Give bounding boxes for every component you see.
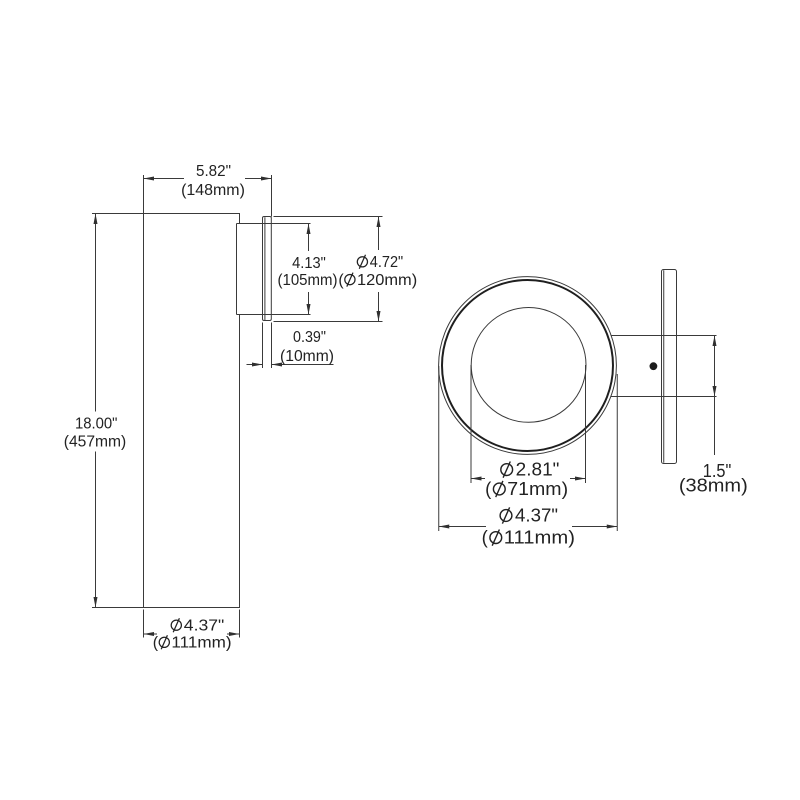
mounting arm (side view) bbox=[236, 224, 238, 315]
svg-text:18.00": 18.00" bbox=[75, 416, 118, 433]
arrow right bbox=[261, 177, 272, 181]
svg-text:(10mm): (10mm) bbox=[280, 348, 334, 365]
extension line bottom (arm bottom edge) bbox=[237, 314, 311, 316]
dimension line bbox=[144, 633, 158, 635]
svg-text:120mm): 120mm) bbox=[357, 272, 417, 289]
arrow right bbox=[607, 525, 618, 529]
arrow right bbox=[575, 477, 586, 481]
extension line left bbox=[143, 610, 145, 638]
outer rim circle (thin, diam 4.37") bbox=[439, 277, 617, 455]
svg-text:2.81": 2.81" bbox=[516, 459, 560, 480]
svg-text:(105mm): (105mm) bbox=[278, 272, 338, 289]
cylinder body (side view, 18.00" tall) bbox=[144, 214, 240, 608]
dimension line bbox=[439, 526, 486, 528]
arrow bottom bbox=[713, 386, 717, 397]
svg-text:(457mm): (457mm) bbox=[64, 434, 127, 451]
svg-text:(38mm): (38mm) bbox=[679, 475, 748, 496]
wall plate (side view, edge-on) bbox=[263, 217, 272, 321]
svg-text:(148mm): (148mm) bbox=[181, 182, 245, 199]
set screw bbox=[650, 362, 658, 370]
svg-text:4.37": 4.37" bbox=[184, 617, 225, 634]
arrow left bbox=[144, 632, 155, 636]
svg-text:0.39": 0.39" bbox=[293, 329, 326, 346]
extension line top bbox=[274, 216, 383, 218]
extension line left bbox=[143, 175, 145, 214]
extension line left bbox=[262, 323, 264, 369]
dimension line bbox=[378, 217, 380, 251]
svg-text:(: ( bbox=[482, 527, 489, 548]
dimension line bbox=[471, 478, 485, 480]
cylinder face circle (thick) bbox=[442, 280, 613, 451]
svg-text:111mm): 111mm) bbox=[171, 635, 231, 652]
arrow top bbox=[307, 224, 311, 235]
arrow left bbox=[439, 525, 450, 529]
mounting arm bottom edge (rear view) bbox=[611, 396, 717, 398]
dimension line left tail bbox=[247, 364, 263, 366]
extension line left bbox=[438, 366, 440, 531]
extension line bottom bbox=[274, 321, 383, 323]
svg-text:(: ( bbox=[485, 478, 492, 499]
label diameter symbol 2.81" bbox=[501, 464, 513, 476]
svg-text:5.82": 5.82" bbox=[196, 163, 231, 180]
dimension line bbox=[714, 336, 716, 397]
svg-text:4.13": 4.13" bbox=[292, 255, 326, 272]
svg-text:111mm): 111mm) bbox=[504, 527, 575, 548]
arrow bottom bbox=[377, 311, 381, 322]
leader extension below bbox=[714, 397, 716, 456]
extension line bottom bbox=[92, 607, 144, 609]
arrow right bbox=[229, 632, 240, 636]
arrow left bbox=[144, 177, 155, 181]
extension line right bbox=[239, 610, 241, 638]
extension line top (arm top edge) bbox=[237, 223, 311, 225]
dimension line bbox=[308, 224, 310, 252]
dimension line bbox=[95, 214, 97, 412]
label diameter symbol 4.72" bbox=[357, 257, 367, 267]
extension line top bbox=[92, 213, 144, 215]
svg-text:4.37": 4.37" bbox=[515, 505, 558, 526]
inner opening circle (diam 2.81") bbox=[471, 308, 586, 423]
arrow bottom bbox=[307, 304, 311, 315]
label diameter symbol 4.37" bbox=[500, 510, 512, 522]
svg-text:71mm): 71mm) bbox=[507, 478, 568, 499]
arrow left bbox=[471, 477, 482, 481]
extension line right bbox=[271, 175, 273, 217]
arrow top bbox=[713, 336, 717, 347]
label diameter symbol 4.37" bbox=[171, 620, 181, 630]
dimension line right tail / leader under text bbox=[272, 364, 334, 366]
extension line right bbox=[616, 374, 618, 531]
wall plate (rear view, edge-on) bbox=[662, 270, 677, 464]
arrow top bbox=[377, 217, 381, 228]
wall plate front-face line bbox=[264, 217, 266, 320]
arrow pointing left bbox=[272, 363, 283, 367]
mounting arm top edge (rear view) bbox=[611, 335, 717, 337]
svg-text:(: ( bbox=[338, 272, 344, 289]
svg-text:4.72": 4.72" bbox=[370, 254, 403, 271]
wall plate front-face line bbox=[663, 270, 665, 463]
svg-text:(: ( bbox=[153, 635, 159, 652]
extension line right bbox=[585, 365, 587, 483]
extension line right bbox=[271, 323, 273, 369]
dimension line bbox=[144, 178, 185, 180]
arrow bottom bbox=[94, 597, 98, 608]
arrow top bbox=[94, 214, 98, 225]
extension line left bbox=[470, 365, 472, 483]
arrow pointing right bbox=[252, 363, 263, 367]
